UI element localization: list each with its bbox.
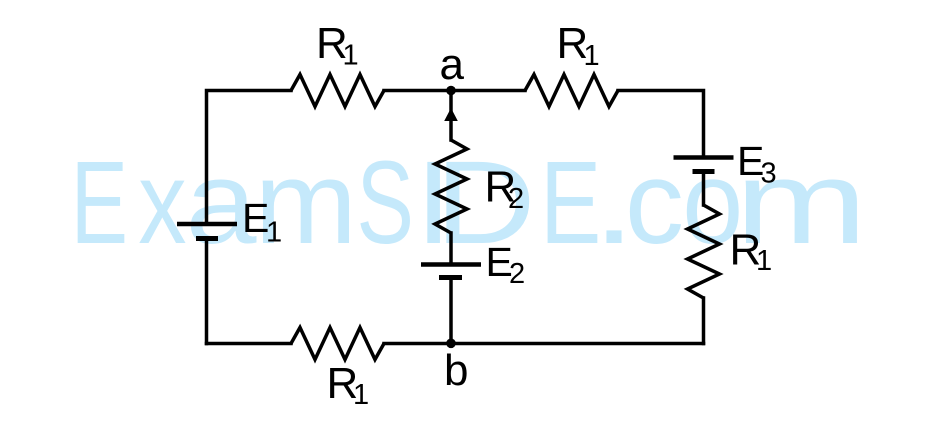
resistor R2 (435, 140, 467, 233)
battery E2 (421, 265, 481, 278)
wire between E3 and right R1 (702, 172, 706, 206)
wire below battery E2 to node b (449, 278, 453, 344)
label R1 top-right (557, 19, 600, 72)
resistor R1 top-left (291, 75, 384, 107)
svg-text:x: x (138, 137, 186, 269)
wire bottom-right segment (451, 342, 704, 346)
wire middle branch upper (with current arrow shaft) (449, 91, 453, 141)
wire bottom-middle segment (384, 342, 451, 346)
battery E1 (177, 224, 237, 239)
wire top-right segment (618, 91, 704, 158)
current direction arrow (444, 108, 458, 121)
battery E3 (674, 158, 734, 172)
label E3 (737, 138, 777, 190)
resistor R1 right (688, 205, 720, 298)
wire right branch bottom (702, 298, 706, 344)
label R1 right (730, 226, 773, 278)
svg-text:1: 1 (353, 379, 369, 411)
svg-text:E: E (71, 137, 128, 269)
svg-text:b: b (444, 346, 468, 395)
svg-text:1: 1 (584, 40, 600, 72)
svg-text:S: S (357, 137, 414, 269)
svg-text:1: 1 (343, 40, 359, 72)
svg-text:2: 2 (508, 183, 524, 215)
svg-text:2: 2 (509, 258, 525, 290)
node a junction dot (446, 86, 456, 96)
wire bottom-left segment (207, 342, 292, 346)
wire left branch below E1 (205, 239, 209, 344)
resistor R1 top-right (525, 75, 618, 107)
wire between R2 and E2 (449, 233, 453, 265)
svg-text:a: a (440, 40, 465, 89)
label R2 (485, 163, 525, 216)
wire top-middle-left segment (384, 89, 451, 93)
svg-text:1: 1 (266, 217, 282, 249)
svg-text:1: 1 (756, 245, 772, 277)
label E2 (486, 239, 526, 290)
label R1 bottom (327, 359, 370, 411)
node b junction dot (446, 339, 456, 349)
svg-text:3: 3 (761, 158, 777, 190)
resistor R1 bottom (291, 328, 384, 360)
label E1 (242, 195, 282, 249)
wire top-middle-right segment (451, 89, 525, 93)
wire top-left segment (207, 91, 292, 225)
svg-text:m: m (255, 137, 358, 269)
label R1 top-left (316, 19, 359, 72)
